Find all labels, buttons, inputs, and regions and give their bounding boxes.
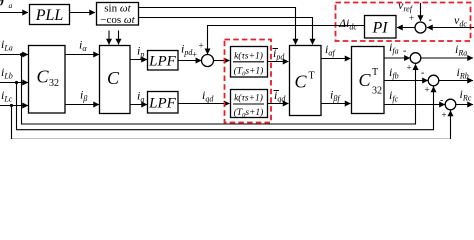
junction i_Lc bbox=[10, 104, 13, 107]
wire i_fb to summer bbox=[384, 80, 428, 82]
wire sin/cos drop 2 into C bbox=[118, 31, 120, 45]
svg-text:iβ: iβ bbox=[80, 88, 87, 104]
block C32 bbox=[29, 46, 66, 114]
wire i_fc to summer bbox=[384, 104, 445, 106]
svg-text:PLL: PLL bbox=[35, 7, 64, 24]
wire i_alpha bbox=[65, 54, 99, 56]
svg-text:iqd: iqd bbox=[202, 88, 214, 104]
block C bbox=[100, 46, 131, 114]
summer S1 bbox=[202, 55, 214, 67]
svg-text:Δidc: Δidc bbox=[338, 16, 357, 32]
svg-text:ifb: ifb bbox=[389, 65, 399, 81]
svg-text:iRc: iRc bbox=[460, 87, 472, 103]
wire i_q bbox=[130, 104, 147, 106]
wire v_dc input bbox=[427, 27, 474, 29]
wire PLL to sin/cos bbox=[70, 12, 95, 14]
svg-text:+: + bbox=[442, 110, 447, 120]
svg-text:iLa: iLa bbox=[1, 37, 13, 53]
junction i_Lb bbox=[15, 81, 18, 84]
svg-text:vdc: vdc bbox=[454, 13, 467, 29]
block C^T bbox=[290, 46, 322, 116]
dashed red box (dc voltage control) bbox=[336, 3, 471, 42]
wire PI output to summer S1 bbox=[208, 26, 365, 55]
svg-text:iRb: iRb bbox=[457, 65, 469, 81]
wire u_a to PLL bbox=[0, 12, 28, 14]
wire summer S5 to PI bbox=[397, 27, 415, 29]
block C32^T bbox=[352, 47, 385, 114]
svg-text:+: + bbox=[409, 13, 414, 23]
svg-text:T: T bbox=[372, 67, 378, 78]
svg-text:ifc: ifc bbox=[389, 88, 399, 104]
svg-text:+: + bbox=[425, 85, 430, 95]
block PLL bbox=[30, 5, 70, 25]
svg-text:C: C bbox=[37, 67, 50, 87]
svg-text:iα: iα bbox=[79, 38, 87, 54]
svg-text:k(τs+1): k(τs+1) bbox=[234, 93, 263, 104]
block k(tau s+1)/(T0 s+1) top bbox=[231, 47, 268, 78]
svg-text:θ: θ bbox=[0, 0, 4, 9]
svg-text:PI: PI bbox=[371, 20, 388, 37]
wire i_Rb output bbox=[439, 80, 473, 82]
svg-text:iq: iq bbox=[137, 89, 144, 105]
wire i_Lb feedback bus bbox=[17, 83, 434, 130]
wire v_ref into summer S5 bbox=[420, 3, 422, 21]
summer S3 bbox=[428, 75, 439, 86]
summer S5 bbox=[415, 22, 426, 33]
wire i_Rc output bbox=[456, 104, 473, 106]
svg-text:C: C bbox=[107, 68, 120, 88]
wire i_La feedback bus bbox=[22, 55, 416, 125]
svg-text:+: + bbox=[407, 63, 412, 73]
svg-text:32: 32 bbox=[49, 78, 59, 89]
block sin wt / -cos wt bbox=[97, 3, 139, 26]
svg-text:32: 32 bbox=[372, 86, 382, 97]
svg-text:-: - bbox=[440, 95, 443, 106]
wire i_alpha_f bbox=[321, 58, 351, 60]
wire sin/cos to C^T (line 2) bbox=[139, 18, 313, 45]
summer S2 bbox=[410, 53, 421, 64]
node u_a input bbox=[0, 0, 13, 10]
wire summer to k-block bbox=[214, 60, 230, 62]
wire i_p bbox=[130, 59, 147, 61]
block k(tau s+1)/(T0 s+1) bottom bbox=[231, 90, 268, 118]
svg-text:iLc: iLc bbox=[1, 88, 13, 104]
wire i_qd bar to C^T bbox=[268, 103, 289, 105]
svg-text:C: C bbox=[295, 72, 308, 92]
svg-text:+: + bbox=[192, 50, 197, 60]
wire i_beta_f bbox=[321, 103, 351, 105]
svg-text:iRa: iRa bbox=[455, 42, 467, 58]
summer S4 bbox=[445, 99, 456, 110]
svg-text:−cos ωt: −cos ωt bbox=[100, 14, 135, 26]
svg-text:-: - bbox=[429, 15, 432, 26]
svg-text:T: T bbox=[309, 71, 315, 82]
svg-text:iαf: iαf bbox=[325, 42, 337, 58]
svg-text:ifa: ifa bbox=[389, 40, 399, 56]
svg-text:(T0s+1): (T0s+1) bbox=[234, 107, 264, 119]
svg-text:iLb: iLb bbox=[1, 65, 13, 81]
block LPF bottom bbox=[148, 92, 179, 114]
wire i_qd LPF to k-block bbox=[178, 103, 230, 105]
svg-text:-: - bbox=[403, 46, 406, 57]
wire i_Lc feedback bus bbox=[12, 106, 451, 140]
svg-text:ip: ip bbox=[137, 44, 144, 60]
svg-text:k(τs+1): k(τs+1) bbox=[234, 51, 263, 62]
wire i_pd bar to C^T bbox=[268, 61, 289, 63]
wire i_Ra output bbox=[421, 57, 473, 59]
svg-text:a: a bbox=[9, 1, 13, 10]
svg-text:+: + bbox=[199, 41, 204, 51]
wire sin/cos drop 1 into C bbox=[108, 31, 110, 45]
wire i_Lc input bbox=[0, 105, 28, 107]
svg-text:iβf: iβf bbox=[330, 88, 341, 104]
block LPF top bbox=[148, 51, 179, 71]
dashed red box (compensators) bbox=[225, 40, 272, 123]
wire i_Lb input bbox=[0, 82, 28, 84]
svg-text:LPF: LPF bbox=[148, 96, 177, 112]
wire i_La input bbox=[0, 54, 28, 56]
svg-text:C: C bbox=[359, 70, 372, 90]
wire i_pd to summer bbox=[178, 60, 201, 62]
svg-text:(T0s+1): (T0s+1) bbox=[234, 66, 264, 78]
svg-text:-: - bbox=[421, 68, 424, 79]
wire sin/cos to C^T (line 1) bbox=[139, 8, 296, 45]
svg-text:LPF: LPF bbox=[148, 54, 177, 70]
wire i_beta bbox=[65, 104, 99, 106]
svg-text:sin ωt: sin ωt bbox=[104, 3, 131, 15]
block PI bbox=[365, 16, 397, 39]
wire i_fa to summer bbox=[384, 57, 410, 59]
junction i_La bbox=[20, 53, 23, 56]
